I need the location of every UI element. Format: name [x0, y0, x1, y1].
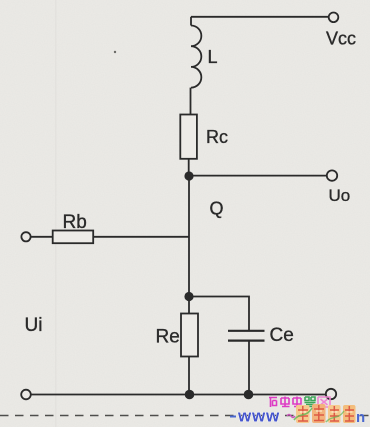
svg-text:www: www	[237, 407, 280, 426]
wire collector to base junction	[188, 176, 190, 297]
capacitor Ce	[228, 331, 265, 341]
svg-text:Uo: Uo	[329, 186, 351, 205]
dashed border bottom	[0, 415, 370, 417]
terminal Vcc	[329, 12, 339, 22]
wire input terminal to Rb	[31, 236, 53, 238]
svg-text:L: L	[208, 47, 218, 67]
wire emitter node to Re	[188, 297, 190, 314]
resistor Rb	[53, 231, 93, 244]
node bottom Re junction	[185, 390, 195, 400]
terminal bottom right	[326, 389, 336, 399]
wire top corner down to inductor	[190, 17, 192, 26]
svg-text:Ui: Ui	[25, 315, 43, 336]
terminal input	[21, 232, 30, 241]
terminal bottom left	[21, 390, 31, 400]
terminal Uo	[327, 170, 337, 180]
svg-text:Q: Q	[210, 199, 224, 219]
wire top rail to Vcc	[191, 16, 329, 18]
wire bottom rail	[31, 394, 326, 396]
watermark line 1: magenta site name	[269, 397, 330, 408]
svg-text:n: n	[356, 409, 365, 426]
svg-text:Vcc: Vcc	[326, 29, 356, 49]
svg-text:Rc: Rc	[206, 127, 228, 147]
wire collector node to Uo	[189, 175, 327, 177]
watermark colored logo characters	[294, 404, 365, 426]
inductor L	[191, 26, 201, 88]
node collector junction	[184, 171, 193, 180]
faint scan streak	[55, 0, 57, 427]
wire inductor to Rc	[190, 88, 192, 115]
wire emitter node to Ce branch	[189, 297, 249, 331]
wire Rc to collector node	[188, 159, 190, 176]
resistor Rc	[180, 115, 197, 159]
watermark line 2: www address	[230, 407, 295, 426]
node bottom Ce junction	[244, 390, 254, 400]
resistor Re	[181, 314, 198, 357]
svg-text:Re: Re	[156, 327, 180, 348]
wire Rb to base	[93, 236, 189, 238]
speck	[114, 51, 116, 53]
node emitter junction	[184, 292, 193, 301]
wire Ce to ground rail	[248, 342, 250, 395]
svg-text:Ce: Ce	[270, 325, 294, 346]
wire Re to ground rail	[188, 357, 190, 395]
svg-text:Rb: Rb	[63, 212, 87, 233]
